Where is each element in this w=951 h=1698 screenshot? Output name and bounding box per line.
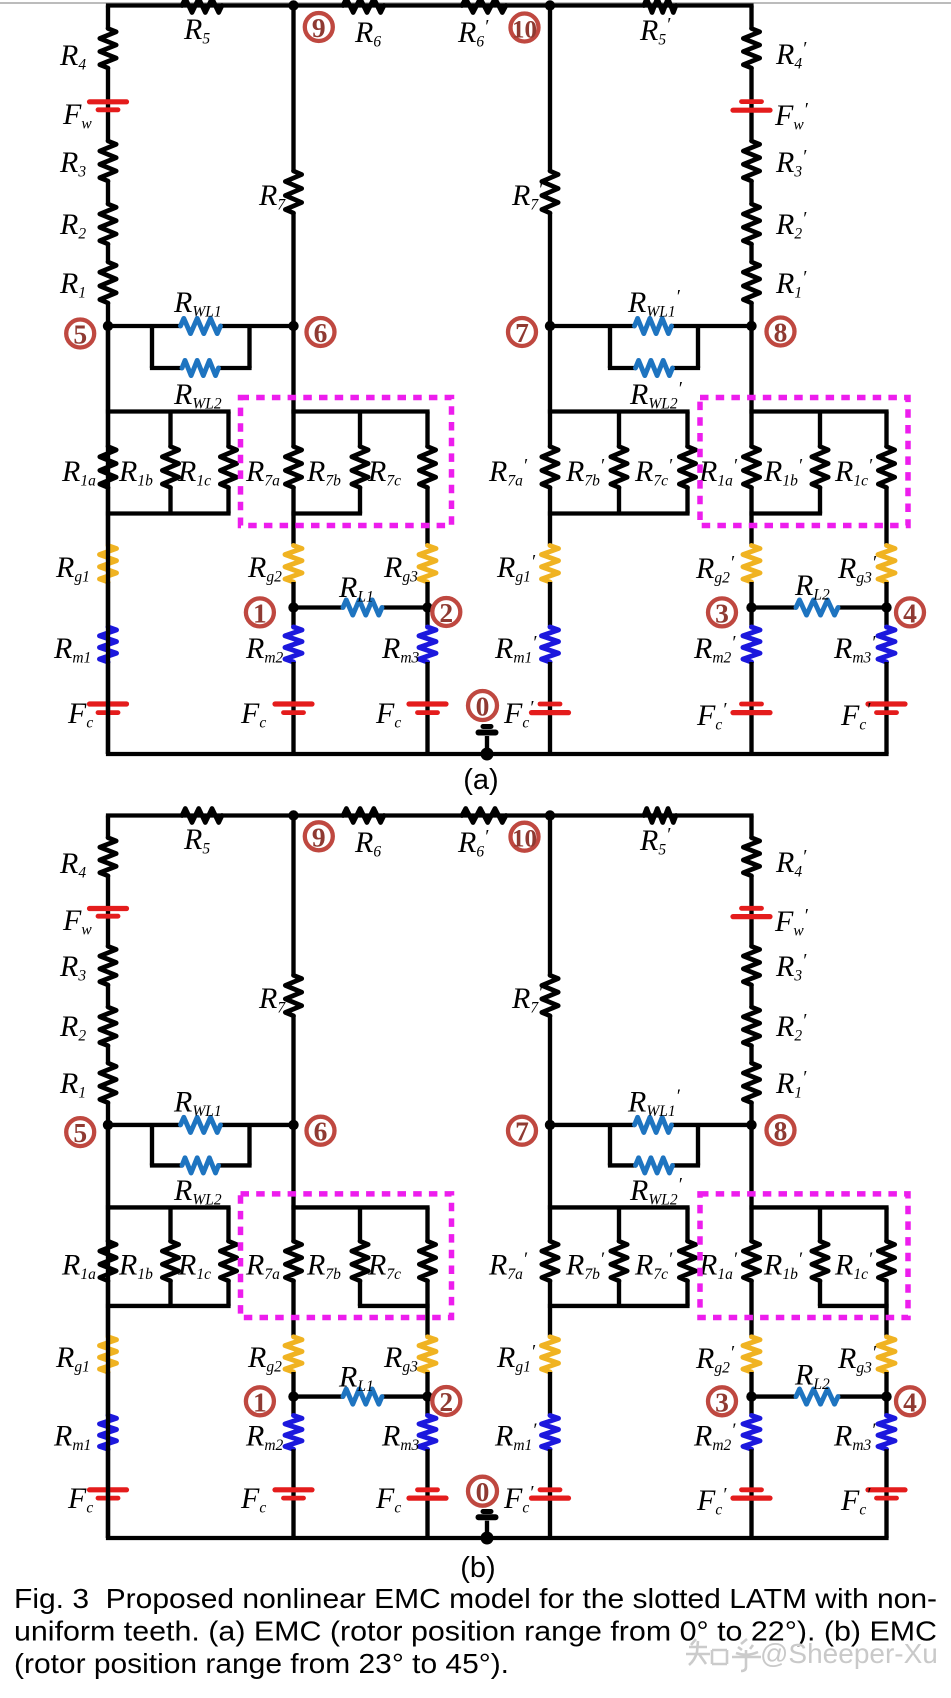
wire bank bus right top (a) xyxy=(749,409,888,413)
resistor R7c (a) xyxy=(425,412,429,447)
mmf source Fc (a) xyxy=(90,701,127,706)
resistor R7b (a) xyxy=(358,412,362,447)
wire (b) xyxy=(106,876,110,947)
svg-text:7: 7 xyxy=(515,1116,529,1147)
resistor R2 (a) xyxy=(100,204,116,244)
wire node3-node4 (b) xyxy=(752,1394,797,1398)
resistor R7&#8242; (a) xyxy=(542,171,558,213)
wire (b) xyxy=(106,1372,110,1415)
wire bank bus right bottom (R1a-R1b) (a) xyxy=(749,511,822,515)
wire (b) xyxy=(749,1046,753,1063)
node 10 junction (a) xyxy=(545,0,555,10)
wire column node10-node7 (a) xyxy=(548,6,552,172)
wire node7-node8 (b) xyxy=(550,1123,635,1127)
wire (a) xyxy=(749,244,753,262)
node 7 (b) xyxy=(545,1120,555,1130)
resistor Rg2 (a) xyxy=(285,546,302,583)
svg-text:(b): (b) xyxy=(460,1552,495,1584)
mmf source Fc (b) xyxy=(90,1487,127,1492)
svg-text:6: 6 xyxy=(314,317,328,348)
wire (a) xyxy=(749,181,753,204)
resistor R3 (a) xyxy=(100,141,116,181)
mmf source Fc (b) xyxy=(275,1487,312,1492)
resistor R3&#8242; (b) xyxy=(743,946,759,985)
wire (b) xyxy=(106,1046,110,1063)
resistor R2&#8242; (b) xyxy=(743,1007,759,1046)
svg-text:2: 2 xyxy=(439,597,453,628)
svg-text:2: 2 xyxy=(439,1386,453,1417)
node 9 junction (a) xyxy=(288,0,298,10)
resistor R6&#8242; (a) xyxy=(462,0,506,13)
wire (b) xyxy=(749,1372,753,1415)
wire left column (a) xyxy=(106,6,110,29)
wire (a) xyxy=(884,488,888,546)
page top hairline xyxy=(0,2,951,4)
wire (a) xyxy=(106,303,110,412)
svg-text:0: 0 xyxy=(476,1476,490,1507)
wire bank bus midleft top (a) xyxy=(291,409,429,413)
wire (b) xyxy=(425,1281,429,1337)
ground node 0 (a) xyxy=(481,748,494,761)
resistor R1c&#8242; (b) xyxy=(884,1207,888,1241)
wire bank bus midleft bottom (R7b-R7c) (b) xyxy=(358,1304,430,1308)
wire bank bus left top (b) xyxy=(106,1205,231,1209)
resistor Rg1&#8242; (a) xyxy=(542,546,559,583)
resistor RWL1&#8242; (b) xyxy=(635,1117,672,1132)
wire (b) xyxy=(291,1207,295,1241)
resistor R7a (b) xyxy=(285,1241,301,1281)
wire (b) xyxy=(106,1207,110,1241)
svg-text:7: 7 xyxy=(515,317,529,348)
wire node7-node8 (a) xyxy=(550,324,635,328)
wire (b) xyxy=(548,1372,552,1415)
resistor Rm2&#8242; (b) xyxy=(743,1415,760,1449)
wire (a) xyxy=(749,303,753,412)
resistor R6 (b) xyxy=(343,809,384,823)
wire top bus (b) xyxy=(106,813,754,817)
wire column node9-node6 (b) xyxy=(291,816,295,976)
mmf source Fc&#8242; (a) xyxy=(733,710,770,715)
wire (b) xyxy=(749,1103,753,1208)
svg-text:8: 8 xyxy=(774,317,788,348)
flux barrier box right (b) xyxy=(700,1194,908,1318)
wire bank bus midleft bottom (R7a-R7b) (a) xyxy=(291,511,362,515)
wire (b) xyxy=(548,1207,552,1241)
mmf source Fw (b) xyxy=(90,906,127,911)
resistor Rm1&#8242; (b) xyxy=(542,1415,559,1449)
resistor R7&#8242; (b) xyxy=(542,975,558,1016)
wire (a) xyxy=(291,662,295,754)
resistor R7b (b) xyxy=(358,1207,362,1241)
resistor R3&#8242; (a) xyxy=(743,141,759,181)
wire bank bus midright bottom (a) xyxy=(548,511,690,515)
resistor Rm1 (b) xyxy=(100,1415,117,1449)
resistor R4&#8242; (a) xyxy=(743,29,759,69)
resistor R7 (b) xyxy=(285,975,301,1016)
resistor R7c (b) xyxy=(425,1207,429,1241)
resistor RWL1 (b) xyxy=(181,1117,221,1132)
resistor R1b&#8242; (b) xyxy=(818,1207,822,1241)
node 3 (a) xyxy=(746,602,756,612)
resistor R1&#8242; (a) xyxy=(743,262,759,303)
resistor R7a&#8242; (b) xyxy=(542,1241,558,1281)
svg-text:10: 10 xyxy=(512,826,537,853)
node 1 (a) xyxy=(288,602,298,612)
wire (b) xyxy=(884,1281,888,1337)
resistor R1a&#8242; (a) xyxy=(743,447,759,488)
svg-text:0: 0 xyxy=(476,691,490,722)
svg-text:@Sheeper-Xu: @Sheeper-Xu xyxy=(760,1638,938,1669)
resistor Rm2 (b) xyxy=(285,1415,302,1449)
resistor R5&#8242; (a) xyxy=(644,0,676,13)
wire (b) xyxy=(548,1449,552,1538)
ground node 0 (b) xyxy=(481,1532,494,1545)
wire (a) xyxy=(749,662,753,754)
wire bank bus midright top (a) xyxy=(548,409,690,413)
resistor RL2 (b) xyxy=(796,1389,838,1404)
wire bottom bus (a) xyxy=(106,752,889,756)
node 5 (a) xyxy=(103,321,113,331)
resistor Rm1&#8242; (a) xyxy=(542,627,559,662)
resistor R2&#8242; (a) xyxy=(743,204,759,244)
wire node1-node2 (a) xyxy=(294,605,344,609)
wire bank bus right bottom (R1b-R1c) (b) xyxy=(818,1304,889,1308)
resistor RWL2 (b) xyxy=(182,1158,219,1173)
node 4 (b) xyxy=(881,1391,891,1401)
resistor R4&#8242; (b) xyxy=(743,838,759,876)
mmf source Fw&#8242; (a) xyxy=(733,108,770,113)
resistor R7a (a) xyxy=(285,447,301,488)
wire (a) xyxy=(749,582,753,627)
resistor R1 (a) xyxy=(100,262,116,303)
svg-text:3: 3 xyxy=(715,597,729,628)
resistor R1b (a) xyxy=(168,412,172,447)
resistor R7c&#8242; (b) xyxy=(685,1207,689,1241)
wire (a) xyxy=(106,412,110,447)
node 2 (b) xyxy=(422,1391,432,1401)
resistor RWL2&#8242; (a) xyxy=(636,360,673,375)
resistor R4 (b) xyxy=(100,838,116,876)
resistor R1 (b) xyxy=(100,1063,116,1103)
wire (a) xyxy=(106,181,110,204)
wire (b) xyxy=(749,876,753,947)
node 5 (b) xyxy=(103,1120,113,1130)
resistor R4 (a) xyxy=(100,29,116,69)
wire (b) xyxy=(106,1103,110,1208)
svg-text:10: 10 xyxy=(512,17,537,44)
wire RWL2 loop (b) xyxy=(150,1125,154,1166)
wire bank bus right top (b) xyxy=(749,1205,888,1209)
wire (a) xyxy=(291,412,295,447)
resistor Rm2&#8242; (a) xyxy=(743,627,760,662)
svg-text:1: 1 xyxy=(253,597,267,628)
wire RWL2&#8242; loop (a) xyxy=(608,326,612,368)
wire left column lower (b) xyxy=(106,1125,110,1538)
resistor Rm3 (b) xyxy=(419,1415,436,1449)
svg-text:6: 6 xyxy=(314,1116,328,1147)
resistor R1a&#8242; (b) xyxy=(743,1241,759,1281)
mmf source Fc (a) xyxy=(409,701,446,706)
svg-text:4: 4 xyxy=(903,597,917,628)
resistor Rm3&#8242; (a) xyxy=(878,627,895,662)
wire left column (b) xyxy=(106,816,110,838)
wire node5-node6 (b) xyxy=(108,1123,181,1127)
resistor Rg2&#8242; (a) xyxy=(743,546,760,583)
wire bank bus left top (a) xyxy=(106,409,231,413)
svg-text:Fw′: Fw′ xyxy=(774,905,809,940)
resistor R1&#8242; (b) xyxy=(743,1063,759,1103)
wire (a) xyxy=(425,488,429,546)
mmf source Fc&#8242; (a) xyxy=(868,701,905,706)
node 8 (b) xyxy=(746,1120,756,1130)
mmf source Fc&#8242; (b) xyxy=(733,1495,770,1500)
node 3 (b) xyxy=(746,1391,756,1401)
resistor R7b&#8242; (b) xyxy=(617,1207,621,1241)
node 1 (b) xyxy=(288,1391,298,1401)
wire bank bus left bottom (b) xyxy=(106,1304,231,1308)
resistor Rg1 (b) xyxy=(100,1337,117,1372)
wire top bus (a) xyxy=(106,3,754,7)
resistor Rm1 (a) xyxy=(100,627,117,662)
resistor Rg3&#8242; (b) xyxy=(878,1337,895,1372)
mmf source Fc (a) xyxy=(275,701,312,706)
svg-text:3: 3 xyxy=(715,1386,729,1417)
resistor R5 (a) xyxy=(182,0,222,13)
node 6 (b) xyxy=(288,1120,298,1130)
resistor R1a (b) xyxy=(100,1241,116,1281)
resistor R6 (a) xyxy=(343,0,384,13)
watermark zhihu xyxy=(686,1639,761,1671)
resistor R3 (b) xyxy=(100,946,116,985)
svg-text:(a): (a) xyxy=(463,764,498,796)
resistor Rg3&#8242; (a) xyxy=(878,546,895,583)
resistor R5 (b) xyxy=(182,809,222,823)
wire bank bus midright bottom (b) xyxy=(548,1304,690,1308)
svg-text:8: 8 xyxy=(774,1115,788,1146)
resistor R1c&#8242; (a) xyxy=(884,412,888,447)
wire (a) xyxy=(548,582,552,627)
wire (b) xyxy=(749,1449,753,1538)
wire bottom bus (b) xyxy=(106,1536,889,1540)
resistor R1c (b) xyxy=(226,1207,230,1241)
wire node1-node2 (b) xyxy=(294,1394,344,1398)
svg-text:5: 5 xyxy=(73,1117,87,1148)
resistor Rg1 (a) xyxy=(100,546,117,583)
mmf source Fc&#8242; (b) xyxy=(868,1487,905,1492)
wire (b) xyxy=(291,1449,295,1538)
wire RWL2 loop (a) xyxy=(150,326,154,368)
resistor R2 (b) xyxy=(100,1007,116,1046)
resistor R1c (a) xyxy=(226,412,230,447)
wire bank bus midright top (b) xyxy=(548,1205,690,1209)
resistor RWL2&#8242; (b) xyxy=(636,1158,673,1173)
resistor R1b (b) xyxy=(168,1207,172,1241)
svg-text:5: 5 xyxy=(73,319,87,350)
resistor Rm3&#8242; (b) xyxy=(878,1415,895,1449)
svg-text:9: 9 xyxy=(312,821,326,852)
wire bank bus left bottom (a) xyxy=(106,511,231,515)
resistor Rm2 (a) xyxy=(285,627,302,662)
resistor R1b&#8242; (a) xyxy=(818,412,822,447)
svg-text:(rotor position range from 23°: (rotor position range from 23° to 45°). xyxy=(14,1647,509,1679)
mmf source Fw (a) xyxy=(90,99,127,104)
wire RWL2&#8242; loop (b) xyxy=(608,1125,612,1166)
node 2 (a) xyxy=(422,602,432,612)
wire (a) xyxy=(106,582,110,627)
resistor Rg2&#8242; (b) xyxy=(743,1337,760,1372)
node 9 junction (b) xyxy=(288,810,298,820)
wire (a) xyxy=(106,68,110,141)
resistor R1a (a) xyxy=(100,447,116,488)
wire (a) xyxy=(548,412,552,447)
resistor RWL1&#8242; (a) xyxy=(635,318,672,333)
node 7 (a) xyxy=(545,321,555,331)
resistor Rg3 (a) xyxy=(419,546,436,583)
mmf source Fc&#8242; (a) xyxy=(532,710,569,715)
wire right column (a) xyxy=(749,6,753,29)
node 4 (a) xyxy=(881,602,891,612)
wire bank bus midleft top (b) xyxy=(291,1205,429,1209)
node 8 (a) xyxy=(746,321,756,331)
mmf source Fc&#8242; (b) xyxy=(532,1495,569,1500)
wire (a) xyxy=(548,662,552,754)
resistor R7a&#8242; (a) xyxy=(542,447,558,488)
resistor RL1 (b) xyxy=(343,1389,382,1404)
resistor RL1 (a) xyxy=(343,600,382,615)
wire (b) xyxy=(749,985,753,1007)
resistor Rg2 (b) xyxy=(285,1337,302,1372)
wire node5-node6 (a) xyxy=(108,324,181,328)
wire column node9-node6 (a) xyxy=(291,6,295,172)
node 6 (a) xyxy=(288,321,298,331)
resistor Rg3 (b) xyxy=(419,1337,436,1372)
flux barrier box left (a) xyxy=(241,398,452,526)
wire (a) xyxy=(291,582,295,627)
resistor RWL2 (a) xyxy=(182,360,219,375)
resistor RL2 (a) xyxy=(796,600,838,615)
wire left column lower (a) xyxy=(106,326,110,754)
mmf source Fc (b) xyxy=(409,1495,446,1500)
resistor Rg1&#8242; (b) xyxy=(542,1337,559,1372)
svg-text:Fw′: Fw′ xyxy=(774,99,809,134)
wire (b) xyxy=(291,1372,295,1415)
svg-text:1: 1 xyxy=(253,1386,267,1417)
node 10 junction (b) xyxy=(545,810,555,820)
svg-text:4: 4 xyxy=(903,1386,917,1417)
flux barrier box right (a) xyxy=(700,398,908,526)
resistor R7c&#8242; (a) xyxy=(685,412,689,447)
svg-text:Fig. 3 Proposed nonlinear EMC: Fig. 3 Proposed nonlinear EMC model for … xyxy=(14,1582,937,1614)
wire (b) xyxy=(106,1449,110,1538)
wire (a) xyxy=(106,662,110,754)
resistor R5&#8242; (b) xyxy=(644,809,676,823)
wire right column (b) xyxy=(749,816,753,838)
svg-text:9: 9 xyxy=(312,12,326,43)
resistor R6&#8242; (b) xyxy=(462,809,506,823)
wire (a) xyxy=(106,244,110,262)
resistor Rm3 (a) xyxy=(419,627,436,662)
resistor R7 (a) xyxy=(285,171,301,213)
resistor R7b&#8242; (a) xyxy=(617,412,621,447)
wire column node10-node7 (b) xyxy=(548,816,552,976)
flux barrier box left (b) xyxy=(241,1194,452,1318)
resistor RWL1 (a) xyxy=(181,318,221,333)
mmf source Fw&#8242; (b) xyxy=(733,914,770,919)
wire (a) xyxy=(749,68,753,141)
wire node3-node4 (a) xyxy=(752,605,797,609)
wire (b) xyxy=(106,985,110,1007)
